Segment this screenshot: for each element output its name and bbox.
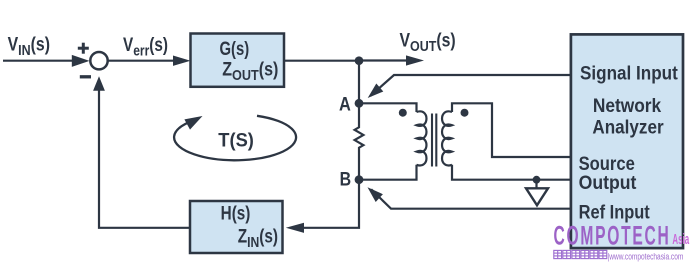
wire G(s) to node junction — [284, 60, 359, 62]
block G(s) Zout(s) — [191, 34, 285, 87]
summing junction S1 — [90, 52, 107, 69]
svg-text:T(S): T(S) — [218, 129, 254, 150]
wire source output to transformer secondary — [452, 103, 571, 157]
transformer core — [431, 114, 433, 167]
svg-text:A: A — [339, 93, 351, 114]
node A — [355, 99, 364, 108]
wire signal input probe to node A — [371, 75, 571, 96]
ground junction dot — [533, 176, 541, 184]
wire summing junction to G(s) — [108, 60, 176, 62]
minus sign — [80, 75, 91, 78]
transformer T1 primary winding — [417, 111, 427, 165]
svg-text:Signal Input: Signal Input — [580, 63, 678, 84]
svg-text:Asia: Asia — [672, 231, 689, 248]
plus sign — [78, 43, 89, 54]
junction node Vout — [355, 56, 364, 65]
svg-text:G(s): G(s) — [219, 38, 249, 59]
transformer T1 secondary winding — [442, 111, 452, 165]
node B — [355, 175, 364, 184]
wire node B down to H(s) — [300, 180, 359, 228]
svg-text:B: B — [340, 168, 352, 190]
ground symbol — [535, 180, 537, 189]
svg-text:Network: Network — [593, 95, 662, 116]
network analyzer box U1 — [571, 34, 683, 248]
wire junction to node A — [358, 61, 360, 104]
Vout arrow — [359, 59, 410, 61]
wire node A to transformer primary — [359, 103, 417, 112]
wire ref input probe to node B — [371, 189, 571, 208]
secondary phase dot — [461, 109, 469, 117]
svg-text:Analyzer: Analyzer — [592, 117, 663, 138]
svg-text:Output: Output — [579, 171, 637, 193]
wire input to summing junction — [3, 60, 78, 62]
wire transformer primary to node B — [359, 165, 417, 180]
resistor R1 between nodes A and B — [355, 103, 364, 179]
block H(s) Zin(s) — [190, 201, 283, 253]
svg-text:COMPOTECH: COMPOTECH — [554, 220, 671, 251]
wire H(s) back to summing junction — [99, 82, 190, 228]
primary phase dot — [399, 109, 407, 117]
svg-text:H(s): H(s) — [221, 202, 251, 224]
svg-text:|www.compotechasia.com: |www.compotechasia.com — [608, 251, 684, 261]
T(S) loop arc — [174, 116, 296, 160]
logo tagline CJK mock glyphs — [554, 250, 607, 258]
wire transformer secondary return to analyzer — [452, 165, 571, 180]
